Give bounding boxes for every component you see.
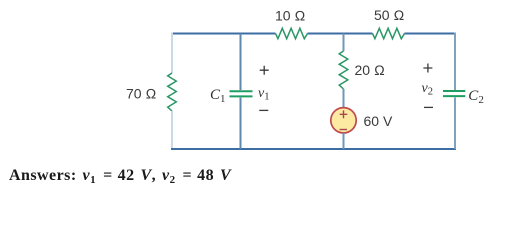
capacitor C1 bottom plate [230, 95, 253, 97]
wire middle branch lower [343, 133, 345, 149]
wire top-right segment (50ohm to node b) [405, 33, 457, 35]
polarity minus for v1 [259, 109, 268, 111]
answers text line [9, 167, 231, 185]
capacitor C2 top plate [443, 90, 465, 92]
resistor 50 ohm [373, 28, 405, 38]
svg-text:C2: C2 [468, 88, 484, 106]
polarity plus for v1 [260, 66, 269, 75]
svg-text:v2: v2 [422, 81, 433, 98]
wire top-middle segment (10ohm to 50ohm) [308, 33, 373, 35]
wire branch C1 lower [240, 98, 242, 149]
svg-text:60 V: 60 V [364, 113, 393, 129]
svg-text:70 Ω: 70 Ω [126, 86, 156, 102]
wire middle branch upper [343, 34, 345, 52]
svg-text:C1: C1 [210, 87, 226, 105]
source plus sign [340, 110, 348, 118]
svg-text:50 Ω: 50 Ω [374, 7, 404, 23]
wire left lower [171, 111, 173, 149]
source minus sign [340, 129, 347, 131]
polarity plus for v2 [423, 64, 432, 73]
wire right upper [454, 33, 456, 91]
wire left upper [171, 33, 173, 74]
voltage source 60V circle [331, 108, 356, 133]
capacitor C2 bottom plate [443, 95, 465, 97]
polarity minus for v2 [424, 106, 433, 108]
wire middle branch between resistor and source [343, 89, 345, 108]
capacitor C1 top plate [230, 90, 253, 92]
svg-text:20 Ω: 20 Ω [355, 62, 385, 78]
wire top-left segment (node a to 10ohm) [171, 33, 276, 35]
wire branch C1 upper [240, 34, 242, 91]
svg-text:v1: v1 [258, 86, 269, 103]
svg-text:10 Ω: 10 Ω [275, 8, 305, 24]
wire right lower [454, 97, 456, 149]
resistor 10 ohm [276, 28, 308, 38]
resistor 20 ohm [339, 51, 348, 89]
wire bottom [171, 148, 456, 150]
resistor 70 ohm [168, 73, 177, 111]
